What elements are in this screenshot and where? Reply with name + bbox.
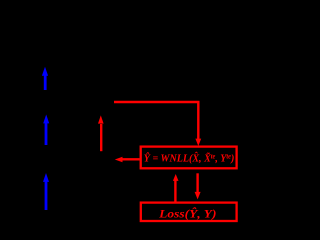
red down connector WNLL box to Loss box xyxy=(195,173,201,199)
red wire from feature output to WNLL box (horizontal then down) xyxy=(114,102,201,146)
Loss box xyxy=(141,203,237,221)
red left arrow out of WNLL box xyxy=(115,157,140,162)
red up arrow (test data branch) xyxy=(98,115,104,151)
blue arrow 1 (bottom DNN block to next, top) xyxy=(42,67,48,90)
svg-text:Ŷ = WNLL(X̂, X̃te, Yte): Ŷ = WNLL(X̂, X̃te, Yte) xyxy=(144,152,235,165)
svg-text:Loss(Ŷ, Y): Loss(Ŷ, Y) xyxy=(158,207,217,221)
red up connector Loss box to WNLL box xyxy=(173,174,179,202)
blue arrow 2 (middle) xyxy=(43,115,49,146)
WNLL box xyxy=(141,147,237,169)
blue arrow 3 (bottom) xyxy=(43,173,49,210)
